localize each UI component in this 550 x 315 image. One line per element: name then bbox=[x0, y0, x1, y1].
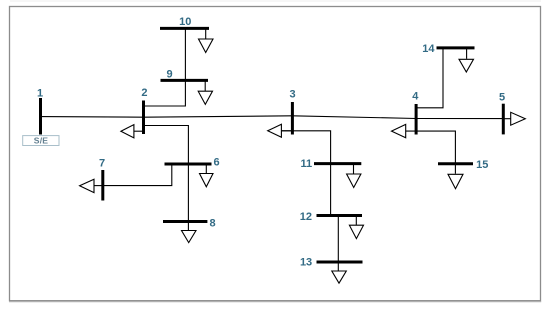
svg-text:7: 7 bbox=[99, 158, 105, 170]
wire bus4 to bus15 drop bbox=[406, 131, 456, 174]
load arrow down at bus 13 bbox=[332, 271, 347, 283]
load arrow down at bus 14 bbox=[459, 48, 474, 72]
load arrow down at bus 6 bbox=[200, 164, 214, 187]
wire main feeder bus1-bus2 bbox=[41, 116, 144, 119]
wire bus12 to bus13 drop bbox=[337, 216, 339, 271]
wire main feeder bus2-bus3 bbox=[144, 116, 293, 117]
svg-text:S/E: S/E bbox=[34, 136, 49, 146]
bus 15 bbox=[438, 162, 473, 165]
svg-text:5: 5 bbox=[499, 92, 505, 104]
svg-text:2: 2 bbox=[141, 87, 147, 99]
svg-text:11: 11 bbox=[301, 158, 313, 170]
bus 9 bbox=[161, 79, 209, 82]
load arrow left at bus 3 bbox=[268, 124, 293, 137]
load arrow left at bus 7 bbox=[80, 179, 103, 192]
svg-text:1: 1 bbox=[37, 88, 43, 100]
load arrow down at bus 11 bbox=[347, 164, 361, 188]
wire bus3 to bus11/bus12 drop bbox=[281, 131, 330, 216]
bus 4 bbox=[415, 104, 418, 135]
bus 3 bbox=[291, 102, 294, 135]
bus 12 bbox=[317, 214, 363, 217]
svg-text:3: 3 bbox=[289, 89, 295, 101]
svg-text:8: 8 bbox=[210, 217, 216, 229]
load arrow down at bus 15 bbox=[448, 174, 463, 188]
S/E source box bbox=[23, 136, 59, 146]
load arrow down at bus 12 bbox=[349, 216, 363, 239]
svg-text:14: 14 bbox=[422, 43, 435, 55]
wire main feeder bus3-bus4 bbox=[292, 116, 416, 119]
faint top artifact line bbox=[10, 0, 541, 2]
bus 6 bbox=[165, 163, 212, 166]
bus 11 bbox=[314, 162, 361, 165]
bus 10 bbox=[160, 27, 209, 30]
svg-text:12: 12 bbox=[300, 211, 312, 223]
svg-text:10: 10 bbox=[179, 16, 191, 28]
svg-text:4: 4 bbox=[412, 90, 419, 102]
bus 1 bbox=[39, 98, 42, 135]
wire bus14 to bus4 bbox=[416, 48, 443, 108]
svg-text:13: 13 bbox=[300, 256, 312, 268]
bus 2 bbox=[142, 101, 145, 135]
load arrow left at bus 4 bbox=[392, 124, 406, 137]
wire bus2 to bus6/bus8 drop bbox=[144, 126, 189, 231]
load arrow down at bus 9 bbox=[198, 80, 212, 104]
bus 7 bbox=[101, 170, 104, 201]
bus 13 bbox=[317, 261, 363, 264]
svg-text:9: 9 bbox=[166, 69, 172, 81]
wire bus2 to bus9 and bus10 riser bbox=[144, 28, 186, 106]
load arrow left at bus 2 bbox=[121, 125, 144, 138]
bus 8 bbox=[163, 220, 207, 223]
load arrow down at bus 10 bbox=[199, 28, 214, 52]
svg-text:6: 6 bbox=[214, 157, 220, 169]
load arrow right at bus 5 bbox=[503, 112, 525, 125]
bus 5 bbox=[502, 104, 505, 135]
bus 14 bbox=[437, 46, 475, 49]
svg-text:15: 15 bbox=[476, 159, 488, 171]
wire bus7 to bus6 bbox=[103, 164, 172, 186]
wire main feeder bus4-bus5 bbox=[416, 118, 503, 120]
load arrow down at bus 8 bbox=[182, 231, 197, 243]
